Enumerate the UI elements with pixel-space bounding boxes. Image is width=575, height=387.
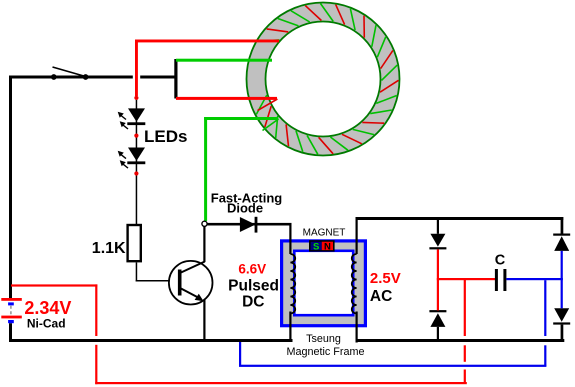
svg-text:Pulsed: Pulsed: [228, 278, 279, 295]
wire collector vertical: [203, 226, 205, 262]
node red dot 1: [134, 96, 138, 100]
svg-text:6.6V: 6.6V: [238, 261, 266, 276]
wire bridge bottom: [356, 339, 565, 342]
inductor L2 secondary winding: [352, 254, 357, 314]
wire red DC output: [437, 278, 496, 280]
svg-text:AC: AC: [370, 288, 392, 305]
node collector junction: [202, 221, 207, 226]
svg-text:MAGNET: MAGNET: [303, 228, 346, 239]
diode D6 bridge top-left: [429, 218, 446, 249]
diode D7 bridge bottom-left: [429, 310, 446, 340]
svg-text:Magnetic Frame: Magnetic Frame: [286, 346, 364, 358]
wire blue DC output: [506, 278, 563, 280]
svg-text:1.1K: 1.1K: [92, 240, 126, 257]
svg-text:2.34V: 2.34V: [24, 298, 71, 318]
battery BT1 2.34V: [1, 298, 22, 323]
wire blue riser capacitor side: [544, 280, 546, 366]
svg-text:Diode: Diode: [227, 201, 263, 216]
svg-text:Ni-Cad: Ni-Cad: [27, 317, 66, 331]
inductor L1 primary winding: [290, 254, 295, 314]
wire bridge right top corner: [561, 217, 564, 234]
LED D1: [118, 108, 146, 129]
wire black switch line: [9, 76, 176, 79]
node red dot 3: [134, 171, 138, 175]
wire red bottom bus: [95, 382, 467, 384]
wire red battery positive: [11, 284, 97, 384]
Tseung magnetic frame: [280, 239, 367, 327]
wire green lower feed horizontal: [204, 117, 278, 120]
switch S1: [51, 67, 89, 80]
wire red bus riser: [464, 279, 466, 383]
wire frame right top lead: [356, 218, 358, 254]
label 6.6V Pulsed DC: [228, 261, 279, 310]
wire black bottom bus left: [9, 339, 293, 342]
diode D8 bridge top-right: [553, 234, 570, 251]
node red dot 2: [134, 134, 138, 138]
wire red toroid feed horizontal: [135, 40, 279, 43]
svg-text:N: N: [324, 241, 331, 252]
wire frame left bottom lead: [289, 312, 291, 342]
wire frame left top lead: [289, 223, 291, 254]
magnet bar S N: [309, 240, 335, 252]
resistor R1 1.1K: [128, 225, 141, 261]
diode D5 fast-acting: [240, 217, 258, 233]
wire red bridge left branch: [437, 249, 439, 310]
svg-text:Tseung: Tseung: [306, 333, 341, 345]
wire battery bottom: [9, 323, 12, 342]
wire left vertical: [9, 76, 12, 299]
toroid coil T1: [247, 3, 400, 156]
LED D2: [118, 148, 146, 169]
capacitor C1: [495, 269, 507, 291]
wire blue bottom bus: [239, 365, 546, 367]
wire green toroid top: [176, 59, 272, 62]
svg-text:DC: DC: [242, 294, 264, 311]
svg-text:LEDs: LEDs: [144, 127, 187, 146]
wire red toroid feed vertical: [135, 40, 138, 97]
svg-text:2.5V: 2.5V: [370, 270, 401, 287]
diode D9 bridge bottom-right: [553, 308, 570, 324]
wire diode horizontal: [207, 223, 292, 226]
svg-text:S: S: [313, 241, 319, 252]
wire green vertical to diode node: [204, 117, 207, 221]
wire emitter vertical: [203, 300, 205, 341]
wire bridge right bottom corner: [561, 325, 564, 342]
wire blue bridge right branch: [561, 251, 563, 308]
svg-text:C: C: [495, 252, 506, 268]
wire resistor to base: [136, 263, 179, 282]
wire blue bus left riser: [239, 342, 241, 365]
transistor Q1: [169, 261, 213, 305]
wire bridge top: [356, 217, 564, 220]
node black bar junction: [174, 59, 177, 99]
wire frame right bottom lead: [356, 312, 358, 343]
wire red toroid bottom: [176, 97, 277, 100]
wire LED chain: [136, 100, 138, 224]
